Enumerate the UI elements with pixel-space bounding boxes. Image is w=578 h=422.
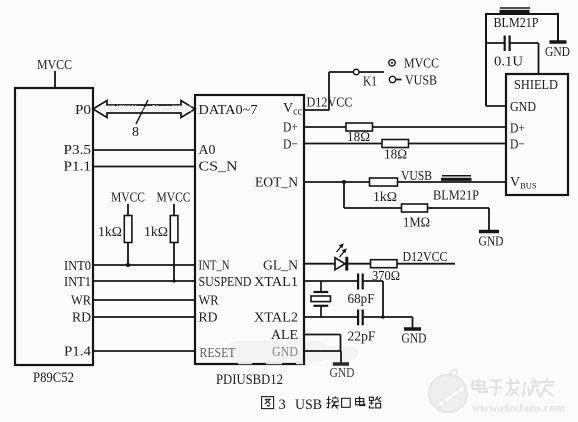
svg-text:RESET: RESET [200,346,236,361]
友 [539,378,555,397]
wire R6 to ground [428,208,490,230]
wire D+ left [304,126,346,128]
电 [356,396,365,405]
wire D+ right [373,126,507,128]
wire R1 to INT0 net [127,243,129,266]
svg-text:1kΩ: 1kΩ [144,225,168,240]
resistor R7 370Ω [371,260,398,268]
图 [262,397,274,409]
路 [369,397,374,408]
svg-text:P0: P0 [75,103,91,118]
svg-text:GND: GND [330,366,355,381]
svg-text:1kΩ: 1kΩ [373,190,397,205]
wire LED to R7 [348,263,370,265]
net D12VCC at Vcc pin [304,72,329,110]
svg-text:8: 8 [132,125,139,140]
wire WR to WR [93,299,195,301]
svg-text:3: 3 [279,397,286,413]
IC U1 P89C52 [15,88,93,365]
svg-text:CS_N: CS_N [199,160,238,175]
svg-text:VBUS: VBUS [510,175,537,191]
wire EOT_N to R5 [304,181,370,183]
terminal VUSB [389,76,401,82]
svg-text:GND: GND [545,45,570,60]
svg-text:MVCC: MVCC [111,191,145,206]
watermark text 电子发烧友 [473,378,555,397]
wire R7 to D12VCC [397,263,455,265]
wire crystal caps common node [383,281,413,328]
发 [506,379,521,397]
junction XTAL2 node [381,315,384,318]
svg-text:P1.4: P1.4 [64,345,91,360]
wire R2 to SUSPEND net [173,243,175,282]
power MVCC at U1 top [54,71,56,89]
svg-text:1kΩ: 1kΩ [98,225,122,240]
resistor R1 1kΩ [124,216,132,243]
svg-text:XTAL1: XTAL1 [254,275,298,290]
svg-text:INT_N: INT_N [199,259,230,274]
svg-text:INT0: INT0 [64,259,91,274]
svg-text:D+: D+ [283,121,298,136]
ground GND (R6) [479,230,499,234]
wire D- left [304,143,382,145]
svg-text:D−: D− [510,138,525,153]
switch K1 [329,69,384,75]
connector J1 SHIELD [506,74,568,195]
svg-text:68pF: 68pF [348,292,375,307]
svg-text:DATA0~7: DATA0~7 [199,103,258,118]
ground GND (crystal) [404,327,421,331]
wire shield gnd [486,105,506,107]
watermark logo elecfans [429,369,467,412]
resistor R5 1kΩ [370,178,398,186]
svg-text:XTAL2: XTAL2 [254,311,298,326]
svg-text:BLM21P: BLM21P [433,189,479,204]
svg-text:MVCC: MVCC [37,58,72,73]
烧 [522,379,542,397]
wire GND pin to ground [304,351,341,363]
svg-text:SUSPEND: SUSPEND [199,275,252,290]
wire XTAL2 [304,316,357,318]
wire P1.1 to CS_N [93,166,195,168]
svg-text:GND: GND [402,332,427,347]
子 [489,381,504,397]
svg-text:ALE: ALE [271,328,298,343]
ferrite bead FB1 BLM21P [500,8,531,12]
wire EOT_N to R6 [344,182,402,208]
电 [473,379,488,393]
wire XTAL1 [304,280,357,282]
bus slash mark [136,100,148,124]
capacitor C3 0.1U [486,36,539,75]
wire D- right [409,143,507,145]
svg-text:D12VCC: D12VCC [403,250,448,265]
svg-text:K1: K1 [363,75,377,90]
capacitor C2 22pF [358,310,412,326]
svg-text:D−: D− [283,138,298,153]
ghost smudge near RESET (background) [228,341,358,362]
svg-text:D+: D+ [510,122,525,137]
wire INT1 to SUSPEND [93,280,195,282]
svg-text:EOT_N: EOT_N [255,176,298,191]
svg-text:22pF: 22pF [348,330,376,345]
svg-text:SHIELD: SHIELD [514,78,558,93]
svg-text:RD: RD [199,311,218,326]
resistor R2 1kΩ [170,216,178,243]
svg-text:BLM21P: BLM21P [494,16,539,31]
resistor R4 18Ω [382,140,409,148]
svg-text:GL_N: GL_N [263,259,298,274]
svg-text:RD: RD [72,311,91,326]
LED D1 emission arrows [337,243,347,257]
svg-text:D12VCC: D12VCC [307,96,353,111]
resistor R6 1MΩ [402,204,428,212]
terminal MVCC [389,60,395,66]
svg-text:INT1: INT1 [64,275,91,290]
svg-text:MVCC: MVCC [404,57,439,72]
svg-text:GND: GND [479,235,504,250]
svg-text:A0: A0 [199,143,216,158]
svg-text:Vcc: Vcc [283,101,303,118]
svg-text:MVCC: MVCC [157,191,191,206]
口 [342,398,351,407]
svg-text:GND: GND [510,100,536,115]
wire P3.5 to A0 [93,149,195,151]
svg-text:WR: WR [71,294,92,309]
svg-text:GND: GND [272,345,298,360]
wire R5 to VBUS [398,181,507,183]
capacitor C1 68pF [358,274,383,290]
LED D1 [335,257,347,271]
svg-text:0.1U: 0.1U [494,55,523,70]
ferrite bead FB2 BLM21P [441,176,472,180]
junction EOT_N [342,180,346,184]
svg-text:www.elecfans.com: www.elecfans.com [472,401,565,415]
wire MVCC2 to R2 [173,204,175,216]
svg-text:USB: USB [295,397,322,413]
ground GND (FB1) [550,40,567,44]
wire GL_N to LED [304,263,335,265]
wire RD to RD [93,316,195,318]
wire P1.4 to RESET [93,350,195,352]
ground GND (U2) [333,362,349,366]
svg-text:18Ω: 18Ω [384,148,407,163]
wire MVCC1 to R1 [127,204,129,216]
wire ALE [304,335,341,352]
svg-text:PDIUSBD12: PDIUSBD12 [216,372,283,388]
crystal Y1 [311,281,331,317]
svg-text:P3.5: P3.5 [64,143,92,158]
junction SUSPEND net [172,279,175,282]
svg-text:VUSB: VUSB [405,74,437,89]
svg-text:P89C52: P89C52 [33,370,74,386]
wire shield top net [486,13,558,106]
svg-text:P1.1: P1.1 [64,160,92,175]
ghost dashes on U2 bottom border [238,362,303,364]
bus DATA0~7 double arrow [93,101,195,118]
svg-text:1MΩ: 1MΩ [403,216,430,231]
svg-text:LIGATION or e-50 nonNOS-T: LIGATION or e-50 nonNOS-T [103,105,193,115]
junction INT0 net [126,263,130,267]
caption: 图 3 USB 接口电路 [262,397,274,409]
svg-text:WR: WR [199,294,220,309]
wire INT0 to INT_N [93,264,195,266]
IC U2 PDIUSBD12 [195,95,304,364]
resistor R3 18Ω [346,123,373,131]
接 [327,396,331,408]
